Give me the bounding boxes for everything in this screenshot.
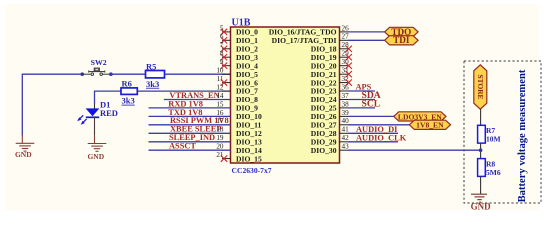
port TDO (385, 27, 419, 37)
svg-text:39: 39 (342, 109, 350, 117)
ground GND (below D1) (88, 136, 107, 152)
svg-text:42: 42 (342, 134, 350, 142)
svg-text:GND: GND (471, 201, 492, 211)
pin 7 (DIO_2) (220, 41, 258, 53)
port 1V8_EN (409, 120, 450, 130)
wire: SW2 to R5 (111, 73, 146, 75)
pin 43 (DIO_30) (311, 143, 481, 155)
pin 38 (DIO_25) (311, 99, 380, 113)
wire: R8 to GND (480, 176, 482, 194)
wire: R7 to R8 (480, 143, 482, 159)
pin 11 (DIO_6) (217, 75, 259, 87)
junction (SW2 right) (109, 72, 113, 76)
svg-text:38: 38 (342, 100, 350, 108)
pin 29 (DIO_19) (311, 50, 352, 62)
svg-text:10: 10 (216, 67, 224, 75)
pin 40 (DIO_27) (311, 117, 410, 129)
junction (divider tap) (479, 148, 483, 152)
pin 41 (DIO_28) (311, 125, 398, 138)
wire: R5 to pin 10 (165, 73, 231, 75)
resistor R6 3k3 (121, 79, 137, 106)
svg-text:3k3: 3k3 (146, 79, 159, 89)
IC U1B CC2630-7x7 body (231, 18, 340, 176)
wire: R6 to pin 12 (137, 90, 230, 92)
pin 9 (DIO_4) (220, 58, 258, 70)
ground GND (battery divider) (471, 194, 487, 202)
svg-text:Battery voltage measurement: Battery voltage measurement (517, 69, 528, 202)
svg-text:ASSCT: ASSCT (169, 142, 196, 151)
svg-text:41: 41 (342, 126, 350, 134)
pin 21 (DIO_15) (216, 151, 262, 163)
svg-text:15: 15 (216, 100, 224, 108)
svg-text:10M: 10M (486, 135, 501, 144)
svg-text:1V8_EN: 1V8_EN (416, 121, 444, 130)
pin 10 (DIO_5) (216, 67, 258, 79)
svg-text:18: 18 (216, 126, 224, 134)
svg-text:RED: RED (100, 108, 118, 118)
resistor R5 3k3 (146, 61, 165, 89)
LED D1 RED (77, 99, 118, 136)
pin 32 (DIO_22) (311, 75, 352, 87)
pin 26 (DIO_16/JTAG_TDO) (269, 24, 385, 36)
svg-text:CC2630-7x7: CC2630-7x7 (232, 166, 272, 175)
wire: left GND up to SW2 (22, 74, 82, 135)
pin 6 (DIO_1) (220, 33, 258, 45)
port LDO3V3_EN (394, 112, 446, 122)
svg-text:37: 37 (342, 92, 350, 100)
svg-text:3k3: 3k3 (122, 96, 135, 106)
pin 27 (DIO_17/JTAG_TDI) (272, 33, 385, 45)
pin 39 (DIO_26) (311, 109, 394, 121)
svg-text:TDI: TDI (393, 35, 410, 45)
svg-text:STORE: STORE (476, 75, 485, 100)
port TDI (385, 35, 419, 45)
pin 8 (DIO_3) (220, 50, 258, 62)
svg-text:40: 40 (342, 117, 350, 125)
ground GND (left) (16, 135, 35, 151)
switch SW2 (82, 58, 111, 76)
pin 15 (DIO_9) (149, 99, 259, 112)
wire: STORE to R7 (480, 109, 482, 125)
svg-text:GND: GND (87, 152, 104, 161)
svg-text:5M6: 5M6 (486, 168, 501, 177)
pin 12 (DIO_7) (216, 83, 258, 95)
pin 37 (DIO_24) (311, 90, 381, 104)
svg-text:SCL: SCL (362, 99, 381, 110)
pin 19 (DIO_13) (149, 133, 262, 146)
svg-text:19: 19 (216, 134, 224, 142)
pin 30 (DIO_20) (311, 58, 352, 70)
pin 17 (DIO_11) (149, 116, 262, 129)
port STORE (474, 65, 487, 109)
svg-text:DIO_15: DIO_15 (236, 154, 262, 163)
resistor R7 10M (478, 125, 501, 143)
svg-text:14: 14 (216, 92, 224, 100)
pin 28 (DIO_18) (311, 41, 352, 53)
pin 36 (DIO_23) (311, 83, 375, 96)
svg-text:R5: R5 (146, 61, 156, 71)
svg-text:R6: R6 (122, 79, 132, 89)
junction (SW2 left) (80, 72, 84, 76)
pin 5 (DIO_0) (220, 24, 258, 36)
svg-text:GND: GND (15, 150, 32, 159)
svg-text:DIO_30: DIO_30 (311, 146, 337, 155)
svg-text:27: 27 (342, 33, 350, 41)
pin 31 (DIO_21) (311, 67, 352, 79)
svg-text:AUDIO_CLK: AUDIO_CLK (356, 133, 407, 142)
pin 20 (DIO_14) (149, 142, 262, 155)
svg-text:43: 43 (342, 143, 350, 151)
battery voltage measurement dashed box (464, 61, 541, 203)
svg-text:SW2: SW2 (91, 58, 107, 67)
svg-text:20: 20 (216, 143, 224, 151)
pin 42 (DIO_29) (311, 133, 407, 146)
pin 16 (DIO_10) (149, 108, 262, 121)
pin 14 (DIO_8) (164, 91, 258, 104)
wire: R6 left down to LED D1 (95, 91, 122, 104)
resistor R8 5M6 (478, 159, 501, 178)
svg-text:36: 36 (342, 83, 350, 91)
pin 18 (DIO_12) (149, 125, 262, 138)
svg-text:26: 26 (342, 24, 350, 32)
